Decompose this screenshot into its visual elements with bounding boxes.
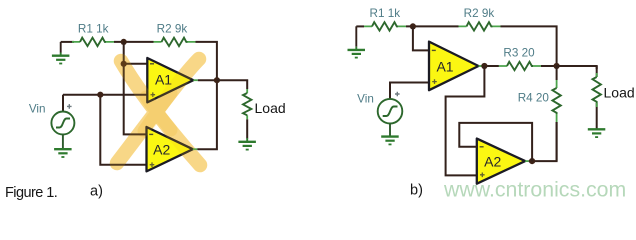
ground under Load (b) bbox=[588, 129, 606, 137]
wire A2 output up to node bbox=[193, 80, 217, 149]
wire ground to R1 (b) bbox=[356, 25, 364, 27]
op-amp A1 (circuit b) bbox=[429, 42, 479, 91]
svg-text:A2: A2 bbox=[153, 142, 170, 158]
resistor R2 (circuit a) bbox=[154, 38, 196, 46]
resistor R1 (circuit a) bbox=[72, 38, 114, 46]
junction J1b bbox=[410, 23, 416, 29]
wire vertical from J1a down past A1- to A2- bbox=[124, 42, 147, 134]
node Vin-a / wire Vin to A1+ bbox=[63, 94, 147, 96]
wire J1b down to A1- bbox=[413, 26, 429, 50]
svg-text:Vin: Vin bbox=[29, 103, 46, 116]
svg-text:b): b) bbox=[410, 183, 423, 199]
resistor Load (circuit b) bbox=[593, 66, 601, 129]
wire A1 out down-left-down to A2+ bbox=[446, 66, 485, 175]
svg-text:R2 9k: R2 9k bbox=[157, 22, 188, 35]
resistor R2 (circuit b) bbox=[459, 22, 501, 30]
ground G1b bbox=[348, 26, 366, 57]
wire Vin stem bbox=[62, 95, 64, 112]
svg-text:Load: Load bbox=[255, 100, 286, 116]
wire from J3a down to A2+ bbox=[100, 95, 146, 165]
junction output node a bbox=[214, 77, 220, 83]
wire top-left to R1 (circuit a) bbox=[61, 41, 74, 43]
wire node to Load (b) bbox=[557, 66, 597, 69]
wire A2b output bbox=[525, 122, 556, 161]
junction J2b (A1 output) bbox=[481, 63, 487, 69]
ground under Vin (a) bbox=[54, 149, 72, 157]
wire Vin to A1+ bbox=[390, 83, 429, 99]
wire R1 to junction J1a bbox=[114, 41, 154, 43]
wire Vin-b bottom bbox=[389, 124, 391, 137]
op-amp A1 (circuit a) bbox=[147, 58, 193, 102]
resistor R1 (circuit b) bbox=[364, 22, 406, 30]
highlight X mark over circuit a bbox=[117, 59, 200, 165]
svg-text:Load: Load bbox=[604, 85, 635, 101]
wire A1b output to junction bbox=[479, 65, 499, 67]
wire branch to A1 inverting input bbox=[124, 63, 148, 65]
junction A2b output bbox=[529, 158, 535, 164]
resistor R3 (circuit b) bbox=[499, 62, 541, 70]
svg-text:Vin: Vin bbox=[357, 92, 374, 105]
wire R2 right corner down to node bbox=[501, 26, 557, 66]
svg-text:R1 1k: R1 1k bbox=[370, 7, 401, 20]
svg-text:a): a) bbox=[90, 183, 103, 199]
op-amp A2 (circuit b) bbox=[477, 139, 525, 184]
svg-text:A1: A1 bbox=[436, 59, 453, 75]
wire A2b feedback loop to inverting input bbox=[459, 123, 532, 161]
svg-text:Figure 1.: Figure 1. bbox=[5, 185, 57, 201]
op-amp A2 (circuit a) bbox=[147, 127, 193, 171]
wire R3 to node bbox=[541, 65, 557, 67]
wire R1 to J1b and to R2 bbox=[406, 25, 459, 27]
svg-text:www.cntronics.com: www.cntronics.com bbox=[443, 178, 626, 202]
ground G1a bbox=[52, 42, 70, 64]
wire Vin bottom bbox=[62, 135, 64, 150]
source Vin (circuit b) bbox=[378, 92, 403, 124]
wire A1 output to node bbox=[193, 79, 217, 81]
resistor Load (circuit a) bbox=[243, 80, 251, 138]
junction J3a bbox=[97, 92, 103, 98]
svg-text:R1 1k: R1 1k bbox=[78, 22, 109, 35]
resistor R4 (circuit b, vertical) bbox=[552, 66, 560, 161]
junction node b (output) bbox=[554, 63, 560, 69]
highlight X mark center emphasis bbox=[144, 93, 171, 131]
wire R2 to top-right corner, down to output node bbox=[196, 42, 217, 80]
svg-text:R3 20: R3 20 bbox=[503, 47, 535, 60]
svg-text:R4 20: R4 20 bbox=[518, 92, 550, 105]
wire node to Load (a) bbox=[217, 79, 247, 81]
junction J1a bbox=[121, 39, 127, 45]
svg-text:A2: A2 bbox=[484, 154, 501, 170]
junction J2a bbox=[121, 61, 127, 67]
highlight X mark overlay (tints components) bbox=[117, 59, 200, 165]
svg-text:R2 9k: R2 9k bbox=[464, 7, 495, 20]
ground under Vin (b) bbox=[381, 137, 399, 145]
ground under Load (a) bbox=[238, 138, 256, 150]
source Vin (circuit a) bbox=[51, 104, 74, 134]
